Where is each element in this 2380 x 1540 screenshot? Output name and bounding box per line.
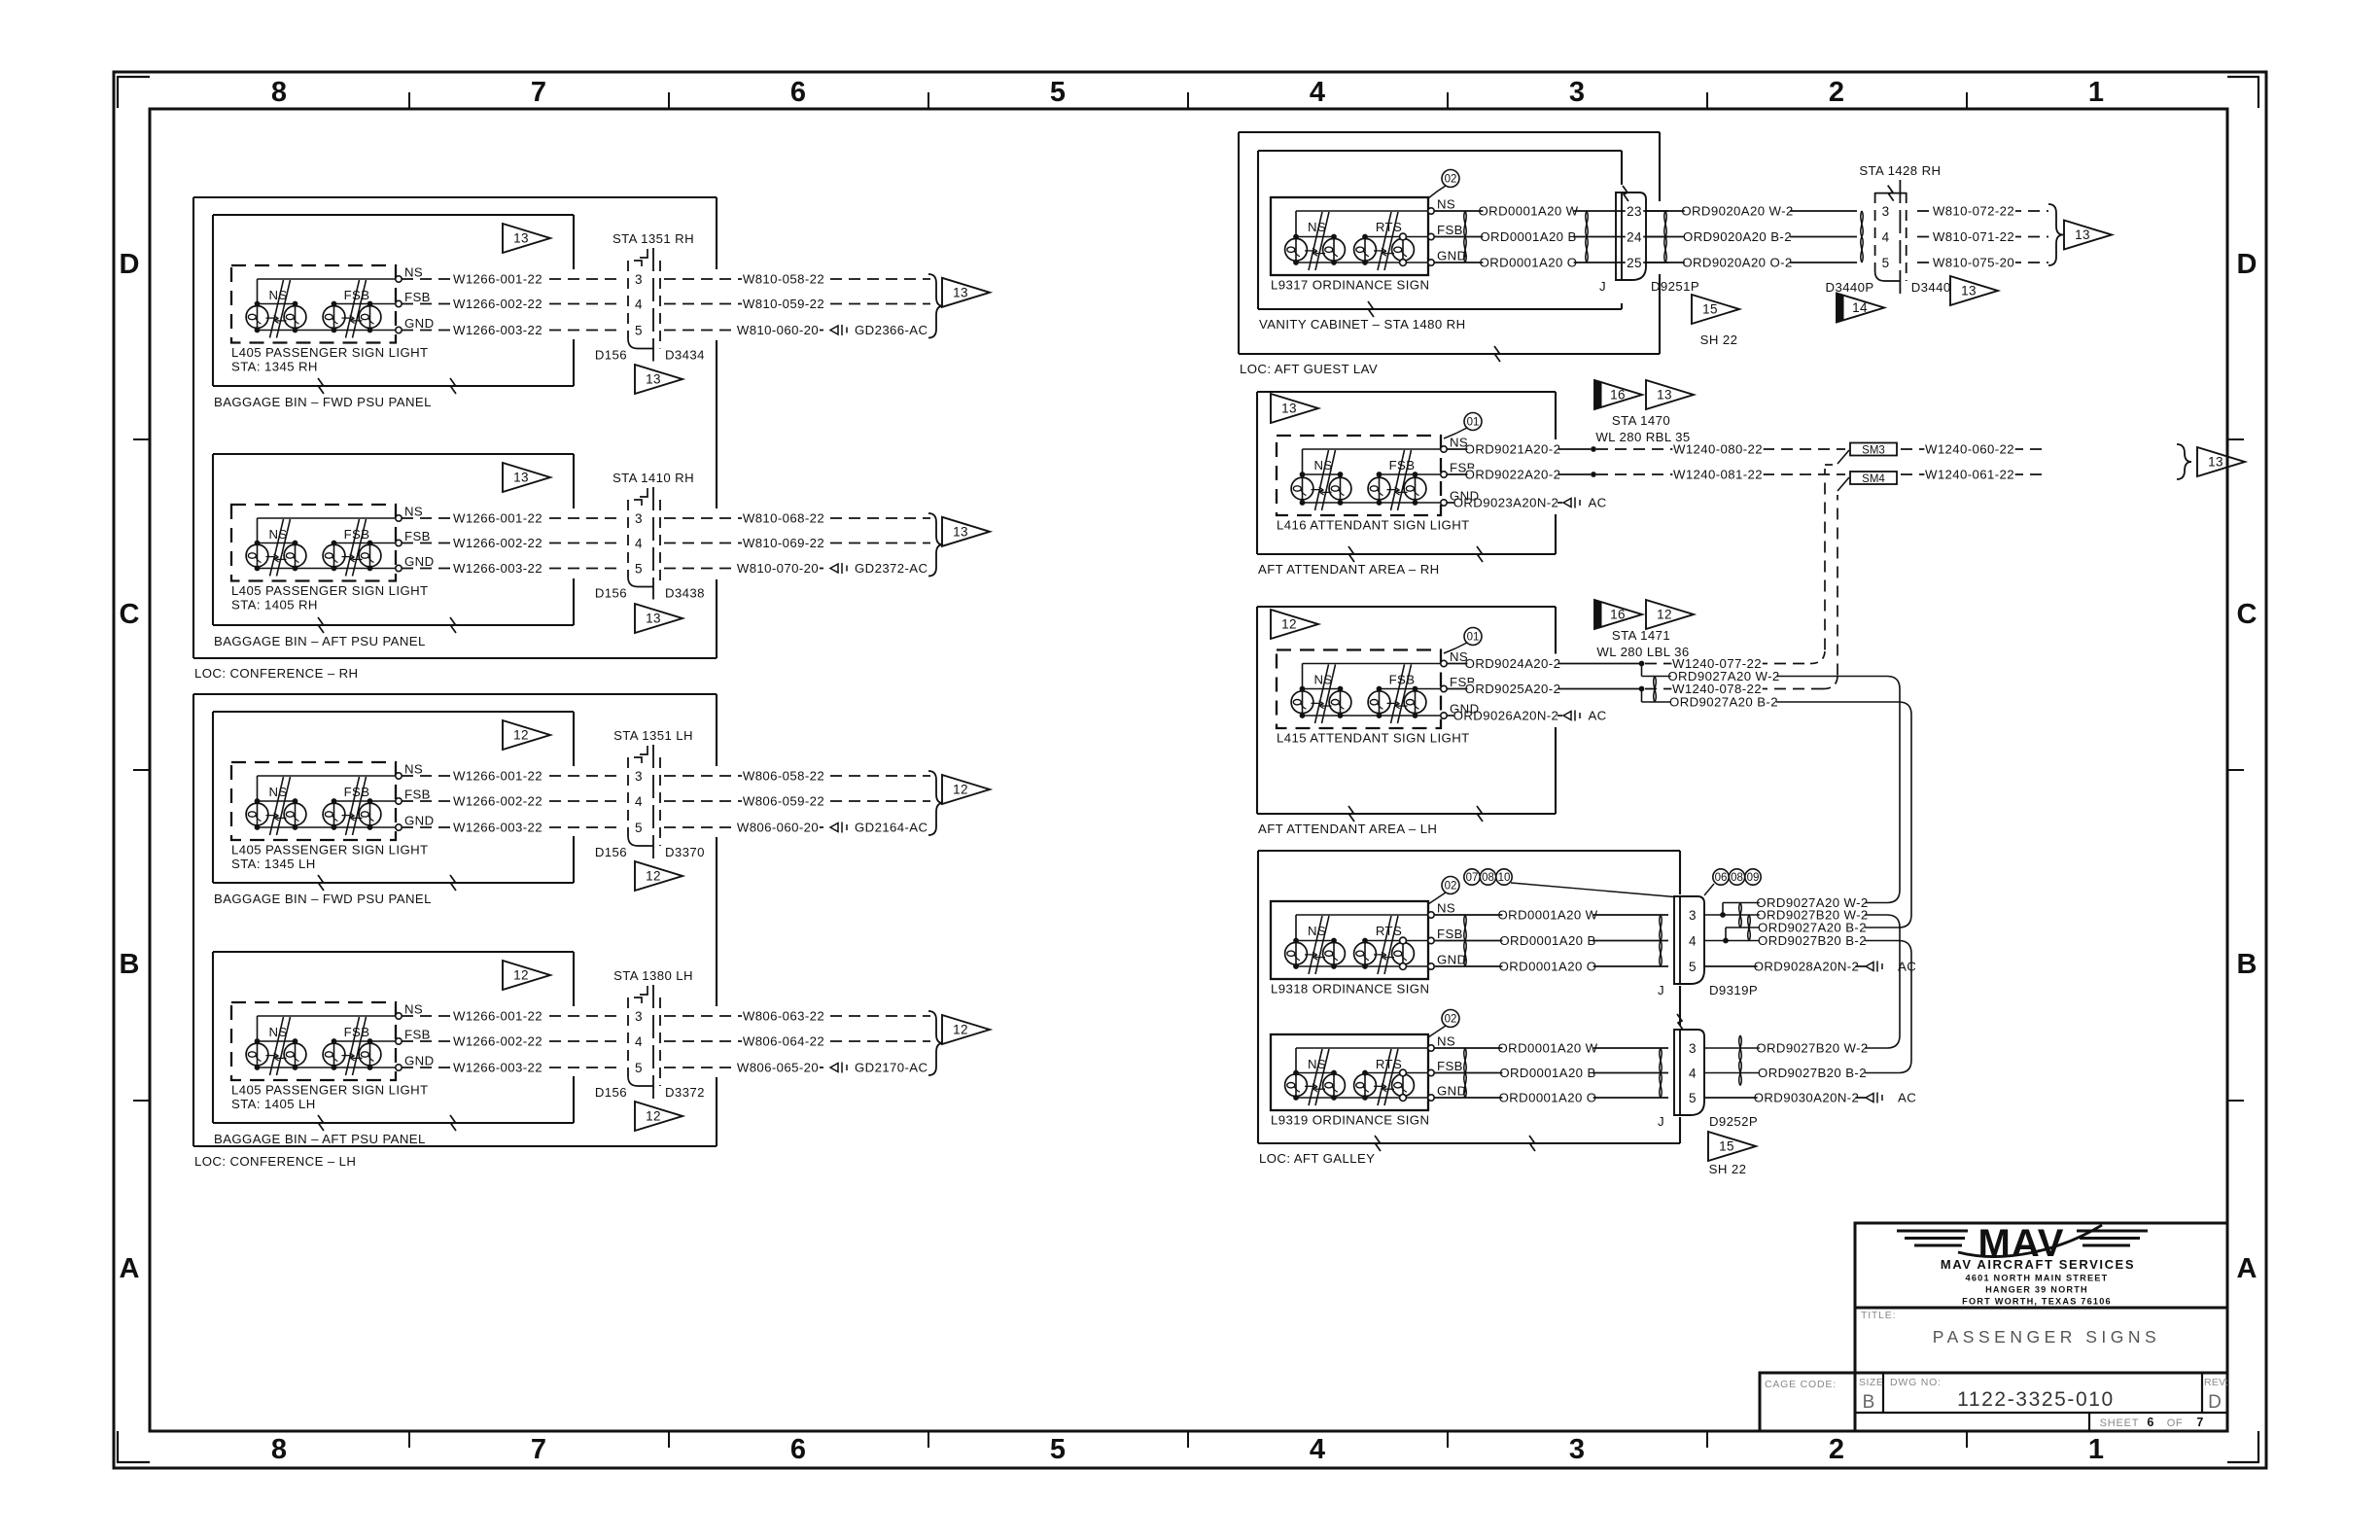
svg-text:FSB: FSB <box>404 787 431 802</box>
svg-text:D3440: D3440 <box>1911 280 1951 295</box>
connector J/D9319P pin 4 <box>1688 935 1698 949</box>
svg-text:14: 14 <box>1852 300 1868 315</box>
corner trim mark top-right <box>2227 77 2258 108</box>
wire W1240-061-22 <box>1901 473 2048 475</box>
svg-text:5: 5 <box>635 561 643 576</box>
L9319 pair-1 top rail <box>1296 1072 1334 1074</box>
L405 A pair-2 break slashes <box>346 280 360 338</box>
L405 D terminal GND <box>396 1065 402 1070</box>
svg-text:ORD9027B20 B-2: ORD9027B20 B-2 <box>1758 933 1867 948</box>
svg-text:ORD0001A20 O: ORD0001A20 O <box>1480 256 1578 270</box>
zone letters right <box>2237 249 2257 1284</box>
svg-text:FSB: FSB <box>1437 223 1463 237</box>
L9318 pair-1 top rail <box>1296 940 1334 942</box>
L9317 terminal NS <box>1428 208 1434 214</box>
L9317 lamp 2 <box>1333 237 1335 263</box>
svg-text:SH 22: SH 22 <box>1700 332 1738 347</box>
L405 B lamp 1 <box>257 543 259 569</box>
L405 D lamp 2 <box>295 1041 297 1067</box>
svg-text:13: 13 <box>953 524 968 539</box>
svg-text:W1266-001-22: W1266-001-22 <box>453 1009 542 1024</box>
svg-text:W810-072-22: W810-072-22 <box>1933 204 2014 219</box>
svg-text:BAGGAGE BIN – FWD PSU PANEL: BAGGAGE BIN – FWD PSU PANEL <box>214 395 432 409</box>
svg-text:NS: NS <box>1437 1034 1455 1049</box>
svg-text:STA 1410 RH: STA 1410 RH <box>612 471 694 485</box>
svg-text:ORD0001A20 B: ORD0001A20 B <box>1499 1066 1595 1080</box>
sheet flag 13 (wire bundle L405 A) <box>942 278 990 307</box>
LOC AFT GUEST LAV box bottom-edge breaks <box>1494 346 1500 362</box>
connector pin 5 <box>634 1062 645 1075</box>
svg-text:GD2164-AC: GD2164-AC <box>855 821 928 835</box>
svg-text:23: 23 <box>1627 204 1642 219</box>
L9318 lamp 3 <box>1364 941 1366 967</box>
svg-text:W810-058-22: W810-058-22 <box>743 272 824 287</box>
svg-text:NS: NS <box>404 1002 423 1017</box>
connector pin 4 <box>634 795 645 809</box>
svg-text:ORD0001A20 B: ORD0001A20 B <box>1499 933 1595 948</box>
sheet flag 13 (attendant RH) <box>1271 394 1318 423</box>
bundle brace (L405 C) <box>928 771 943 835</box>
callout 01 leader <box>1444 428 1467 438</box>
L9317 lamp 4 <box>1402 237 1404 263</box>
svg-text:NS: NS <box>1308 220 1326 234</box>
L9319 pair-2 break slashes <box>1378 1049 1391 1105</box>
svg-text:D156: D156 <box>595 845 627 859</box>
svg-text:12: 12 <box>646 869 661 884</box>
svg-text:L415 ATTENDANT SIGN LIGHT: L415 ATTENDANT SIGN LIGHT <box>1277 731 1470 746</box>
svg-text:FSB: FSB <box>1389 673 1416 687</box>
AFT ATTENDANT LH box outline <box>1257 607 1556 814</box>
L405 C pair-1 top rail <box>258 800 296 802</box>
svg-text:STA: 1405 RH: STA: 1405 RH <box>231 598 318 612</box>
svg-text:W810-071-22: W810-071-22 <box>1933 229 2014 244</box>
svg-text:5: 5 <box>1050 77 1066 108</box>
svg-text:3: 3 <box>1569 77 1585 108</box>
svg-text:A: A <box>2237 1253 2257 1284</box>
L405 D terminal FSB <box>396 1038 402 1044</box>
svg-text:4: 4 <box>1310 77 1325 108</box>
L9319 terminal FSB <box>1428 1069 1434 1075</box>
title block SIZE cell divider <box>1882 1373 1884 1413</box>
svg-text:W810-068-22: W810-068-22 <box>743 511 824 526</box>
wire W810-072-22 <box>1917 210 2048 212</box>
zone letters left <box>120 249 140 1284</box>
svg-text:13: 13 <box>646 372 661 387</box>
connector D3438 receptacle half <box>652 487 654 600</box>
L415 lamp 1 <box>1302 689 1304 717</box>
L405 C panel box bottom-edge breaks <box>318 875 456 891</box>
callout circle 02 (L9317) <box>1442 170 1459 188</box>
L405 D terminal NS <box>396 1013 402 1019</box>
wire W1266-001-22 (L405 C NS) <box>402 775 623 777</box>
L9317 terminal FSB <box>1428 233 1434 239</box>
L9317 NS feed wire <box>1296 210 1428 212</box>
L405 C NS feed wire <box>258 775 397 777</box>
splice SM3 <box>1850 443 1897 456</box>
L416 pair-2 top rail <box>1380 473 1442 475</box>
sheet flag 12 (panel L405 C) <box>503 720 550 750</box>
wire W810-070-20 (pin 5) with ground GD2372-AC <box>664 568 830 570</box>
svg-text:ORD0001A20 W: ORD0001A20 W <box>1497 908 1597 923</box>
L405 D pair-1 top rail <box>258 1040 296 1042</box>
svg-text:4: 4 <box>1689 933 1697 948</box>
L405 D lamp 1 <box>257 1041 259 1067</box>
L405 C lamp 3 <box>333 801 335 827</box>
svg-text:08: 08 <box>1731 872 1743 884</box>
connector pin 4 <box>634 1035 645 1049</box>
svg-text:STA 1351 RH: STA 1351 RH <box>612 231 694 246</box>
svg-text:ORD0001A20 B: ORD0001A20 B <box>1480 229 1576 244</box>
svg-text:FSB: FSB <box>1437 1059 1463 1073</box>
wire W1240-060-22 <box>1901 448 2048 450</box>
wire W1240-081-22 <box>1596 473 1845 475</box>
L9317 pair-1 break slashes <box>1309 212 1322 270</box>
svg-text:FSB: FSB <box>344 288 370 302</box>
svg-text:LOC: AFT GALLEY: LOC: AFT GALLEY <box>1259 1151 1375 1166</box>
twisted bundle (L9318 leads) <box>1464 915 1466 941</box>
connector J/D9319P shell <box>1674 896 1704 984</box>
svg-text:D9252P: D9252P <box>1709 1114 1758 1129</box>
svg-text:08: 08 <box>1482 872 1494 884</box>
svg-text:D156: D156 <box>595 1085 627 1100</box>
svg-text:W1266-001-22: W1266-001-22 <box>453 272 542 287</box>
wire W1266-002-22 (L405 B FSB) <box>402 542 623 544</box>
L9318 pair-2 top rail <box>1365 940 1428 942</box>
L415 pair-2 break slashes <box>1391 665 1405 724</box>
svg-text:16: 16 <box>1610 388 1626 402</box>
L416 terminal NS <box>1441 446 1447 452</box>
svg-text:LOC: AFT GUEST LAV: LOC: AFT GUEST LAV <box>1240 362 1378 376</box>
svg-text:W806-063-22: W806-063-22 <box>743 1009 824 1024</box>
svg-text:ORD9027A20 W-2: ORD9027A20 W-2 <box>1667 669 1779 683</box>
L405 C panel box outline <box>213 712 574 883</box>
sheet flag 12 (wire bundle L405 D) <box>942 1015 990 1044</box>
svg-text:3: 3 <box>1689 1041 1697 1056</box>
L405 D pair-1 break slashes <box>270 1017 284 1075</box>
svg-text:D3372: D3372 <box>665 1085 705 1100</box>
connector pin 3 <box>634 512 645 526</box>
wire ORD9027B20 B-2 (L9319 pin4) <box>1704 1072 1899 1074</box>
L9317 lamp 1 <box>1295 237 1297 263</box>
LOC AFT GALLEY box outline <box>1258 851 1680 1143</box>
svg-text:12: 12 <box>1281 617 1297 632</box>
svg-text:W806-060-20: W806-060-20 <box>737 821 819 835</box>
L405 A panel box outline <box>213 215 574 386</box>
title block REV cell divider <box>2201 1373 2203 1413</box>
LOC CONFERENCE LH box outline <box>193 694 717 1146</box>
svg-text:D3370: D3370 <box>665 845 705 859</box>
connector pin 4 <box>634 298 645 312</box>
wire W806-064-22 (pin 4) <box>664 1040 930 1042</box>
sheet flag 15 (D9251P) <box>1692 295 1739 324</box>
L416 lamp 3 <box>1379 474 1381 503</box>
svg-text:W1266-003-22: W1266-003-22 <box>453 821 542 835</box>
svg-text:LOC: CONFERENCE – LH: LOC: CONFERENCE – LH <box>194 1154 356 1169</box>
connector J/D9251P shell <box>1616 192 1646 280</box>
sheet flag 13 (below connector D3438) <box>635 604 682 633</box>
svg-text:W1266-002-22: W1266-002-22 <box>453 1034 542 1049</box>
svg-text:NS: NS <box>404 505 423 519</box>
twisted bundle symbol (after D9251P) <box>1664 211 1666 237</box>
L415 pair-1 top rail <box>1303 688 1341 690</box>
L405 A terminal FSB <box>396 300 402 306</box>
svg-text:4: 4 <box>635 1034 643 1049</box>
svg-text:GND: GND <box>1437 1084 1467 1099</box>
svg-text:LOC: CONFERENCE – RH: LOC: CONFERENCE – RH <box>194 666 358 681</box>
corner trim mark top-left <box>118 77 150 108</box>
L405 D panel box outline <box>213 952 574 1123</box>
L405 C enclosure box <box>231 762 396 840</box>
svg-text:AC: AC <box>1898 1091 1916 1105</box>
svg-text:GND: GND <box>1437 249 1467 263</box>
L415 NS feed wire <box>1303 663 1442 665</box>
splice SM4 <box>1850 472 1897 484</box>
tap wire ORD9027A20 B-2 (from L415 FSB) <box>1641 689 1643 703</box>
svg-text:NS: NS <box>1437 197 1455 212</box>
svg-text:4: 4 <box>635 536 643 550</box>
L405 A pair-1 break slashes <box>270 280 284 338</box>
svg-text:ORD9021A20-2: ORD9021A20-2 <box>1465 442 1561 457</box>
svg-text:GD2372-AC: GD2372-AC <box>855 561 928 576</box>
twisted bundle (before D9319P) <box>1660 915 1662 941</box>
connector J/D9252P panel edge line <box>1679 1030 1681 1115</box>
L9318 NS feed wire <box>1296 914 1428 916</box>
svg-text:4601 NORTH MAIN STREET: 4601 NORTH MAIN STREET <box>1966 1274 2109 1283</box>
connector D156 plug half <box>627 261 629 339</box>
wire ORD0001A20 B (L9318) <box>1434 940 1668 942</box>
svg-text:D3440P: D3440P <box>1826 280 1874 295</box>
svg-text:AC: AC <box>1588 709 1606 723</box>
svg-text:NS: NS <box>404 265 423 280</box>
L415 lamp 2 <box>1340 689 1342 717</box>
svg-text:1: 1 <box>2088 1434 2104 1465</box>
svg-text:02: 02 <box>1445 174 1457 186</box>
L9319 enclosure box <box>1271 1034 1428 1110</box>
sheet flag 12 (attendant LH) <box>1271 610 1318 639</box>
svg-text:MAV AIRCRAFT SERVICES: MAV AIRCRAFT SERVICES <box>1941 1257 2135 1272</box>
svg-text:STA 1380 LH: STA 1380 LH <box>613 968 693 983</box>
bundle brace (W1240 to sheet 13) <box>2177 444 2191 479</box>
L415 lamp 4 <box>1415 689 1417 717</box>
svg-text:BAGGAGE BIN – AFT PSU PANEL: BAGGAGE BIN – AFT PSU PANEL <box>214 634 426 648</box>
svg-text:D156: D156 <box>595 586 627 601</box>
svg-text:FSB: FSB <box>1437 927 1463 941</box>
L405 B lamp 3 <box>333 543 335 569</box>
L9319 terminal GND <box>1428 1095 1434 1101</box>
svg-text:1: 1 <box>2088 77 2104 108</box>
svg-text:13: 13 <box>953 285 968 299</box>
wire W810-059-22 (pin 4) <box>664 303 930 305</box>
svg-text:NS: NS <box>268 785 287 799</box>
svg-text:09: 09 <box>1747 872 1760 884</box>
L405 A ground bottom rail <box>258 330 397 332</box>
wire ORD0001A20 O (L9317 GND) <box>1434 262 1668 263</box>
wire W806-059-22 (pin 4) <box>664 800 930 802</box>
svg-text:W810-059-22: W810-059-22 <box>743 297 824 311</box>
svg-text:ORD9024A20-2: ORD9024A20-2 <box>1465 656 1561 671</box>
wire W1266-002-22 (L405 A FSB) <box>402 303 623 305</box>
wire ORD0001A20 W (L9318) <box>1434 914 1668 916</box>
splice node D9319P pin3 <box>1704 914 1723 916</box>
svg-text:A: A <box>120 1253 140 1284</box>
svg-text:AFT ATTENDANT AREA – RH: AFT ATTENDANT AREA – RH <box>1258 562 1440 577</box>
svg-text:NS: NS <box>404 762 423 777</box>
connector D3370 receptacle half <box>652 745 654 858</box>
svg-text:GND: GND <box>404 554 435 569</box>
L9318 lamp 2 <box>1333 941 1335 967</box>
svg-text:ORD9026A20N-2: ORD9026A20N-2 <box>1453 709 1559 723</box>
twisted bundle symbol (before D3440P) <box>1861 211 1863 237</box>
bundle brace (L405 B) <box>928 513 943 577</box>
connector J/D9251P pin 23 <box>1626 205 1643 219</box>
L405 A lamp 3 <box>333 304 335 331</box>
svg-text:W806-059-22: W806-059-22 <box>743 794 824 809</box>
svg-text:W1266-002-22: W1266-002-22 <box>453 794 542 809</box>
L9318 terminal GND <box>1428 963 1434 969</box>
svg-text:02: 02 <box>1445 881 1457 892</box>
svg-text:STA 1471: STA 1471 <box>1612 628 1670 643</box>
svg-text:PASSENGER SIGNS: PASSENGER SIGNS <box>1933 1327 2160 1347</box>
svg-text:3: 3 <box>635 1009 643 1024</box>
twisted bundle (L9319 leads) <box>1464 1048 1466 1073</box>
AFT ATTENDANT RH box outline <box>1257 392 1556 554</box>
L405 A NS feed wire <box>258 278 397 280</box>
svg-text:L9319 ORDINANCE SIGN: L9319 ORDINANCE SIGN <box>1271 1113 1429 1128</box>
svg-text:W1240-060-22: W1240-060-22 <box>1925 442 2014 457</box>
svg-text:L405 PASSENGER SIGN LIGHT: L405 PASSENGER SIGN LIGHT <box>231 843 429 857</box>
connector pin 3 <box>634 770 645 784</box>
svg-text:AC: AC <box>1898 960 1916 974</box>
L405 C pair-2 top rail <box>334 800 397 802</box>
wire W1266-003-22 (L405 A GND) <box>402 330 623 332</box>
svg-text:GND: GND <box>404 1054 435 1068</box>
svg-text:L405 PASSENGER SIGN LIGHT: L405 PASSENGER SIGN LIGHT <box>231 345 429 360</box>
L405 A pair-2 top rail <box>334 303 397 305</box>
connector J/D9251P panel edge line <box>1621 192 1623 280</box>
splice node D9319P pin4 <box>1704 940 1726 942</box>
sheet flag 12 (below connector D3372) <box>635 1102 682 1131</box>
connector D3440P plug half <box>1874 192 1876 271</box>
svg-text:7: 7 <box>531 77 546 108</box>
L416 lamp 1 <box>1302 474 1304 503</box>
L9319 pair-2 top rail <box>1365 1072 1428 1074</box>
connector J/D9251P pin 25 <box>1626 257 1643 270</box>
wire W1266-002-22 (L405 D FSB) <box>402 1040 623 1042</box>
svg-text:3: 3 <box>635 272 643 287</box>
connector D3372 receptacle half <box>652 985 654 1099</box>
svg-text:W810-069-22: W810-069-22 <box>743 536 824 550</box>
svg-text:C: C <box>2237 599 2257 630</box>
svg-text:W1266-002-22: W1266-002-22 <box>453 536 542 550</box>
svg-text:HANGER 39 NORTH: HANGER 39 NORTH <box>1985 1285 2088 1295</box>
wire W806-065-20 (pin 5) with ground GD2170-AC <box>664 1067 830 1068</box>
twisted pair (L9319 pin3) <box>1739 1035 1742 1061</box>
svg-text:ORD9030A20N-2: ORD9030A20N-2 <box>1754 1091 1860 1105</box>
twisted pair (B20 pair at galley) <box>1748 915 1751 941</box>
L405 C lamp 2 <box>295 801 297 827</box>
svg-text:W1266-001-22: W1266-001-22 <box>453 769 542 784</box>
splice node (L415 NS row) <box>1639 661 1645 667</box>
L415 terminal GND <box>1441 713 1447 718</box>
svg-text:STA: 1345 LH: STA: 1345 LH <box>231 857 316 871</box>
svg-text:OF: OF <box>2167 1417 2183 1429</box>
cage code cell <box>1760 1373 1855 1431</box>
svg-text:L9317 ORDINANCE SIGN: L9317 ORDINANCE SIGN <box>1271 278 1429 293</box>
svg-text:J: J <box>1658 1114 1664 1129</box>
svg-text:ORD9020A20 O-2: ORD9020A20 O-2 <box>1682 256 1792 270</box>
svg-text:13: 13 <box>1281 402 1297 416</box>
L405 C lamp 4 <box>369 801 371 827</box>
connector J/D9319P pin 3 <box>1688 909 1698 923</box>
svg-text:10: 10 <box>1498 872 1511 884</box>
svg-text:13: 13 <box>1961 284 1977 298</box>
connector pin 3 <box>1880 205 1891 219</box>
callout 06 leader to D9319P <box>1704 884 1714 895</box>
connector pin 5 <box>1880 257 1891 270</box>
bundle brace (W810 to sheet 13) <box>2048 204 2063 265</box>
wire W1266-003-22 (L405 D GND) <box>402 1067 623 1068</box>
svg-text:D3438: D3438 <box>665 586 705 601</box>
L9317 pair-1 top rail <box>1296 236 1334 238</box>
svg-text:D: D <box>2208 1392 2222 1413</box>
sheet flag 12 (panel L405 D) <box>503 961 550 990</box>
L405 B NS feed wire <box>258 517 397 519</box>
L405 B terminal FSB <box>396 540 402 545</box>
wire ORD9021A20-2 <box>1447 448 1591 450</box>
svg-text:13: 13 <box>1657 388 1672 402</box>
splice node (NS row) <box>1591 446 1596 452</box>
svg-text:FSB: FSB <box>344 1025 370 1039</box>
svg-text:ORD9020A20 B-2: ORD9020A20 B-2 <box>1683 229 1792 244</box>
svg-text:W1240-061-22: W1240-061-22 <box>1925 468 2014 482</box>
wire W1266-003-22 (L405 C GND) <box>402 826 623 828</box>
wire ORD9027B20 B-2 (pin4 out) <box>1726 940 1899 942</box>
svg-text:ORD0001A20 W: ORD0001A20 W <box>1497 1041 1597 1056</box>
L9318 terminal FSB <box>1428 937 1434 943</box>
connector pin 3 <box>634 273 645 287</box>
svg-text:ORD9027A20 B-2: ORD9027A20 B-2 <box>1669 695 1778 710</box>
wire ORD9027B20 W-2 (L9319 pin3) <box>1704 1047 1887 1049</box>
twisted pair symbol (ORD9027A20 pair) <box>1654 677 1657 703</box>
svg-text:NS: NS <box>1313 458 1332 472</box>
wire W810-060-20 (pin 5) with ground GD2366-AC <box>664 330 830 332</box>
wire ORD9030A20N-2 with AC ground <box>1704 1097 1866 1099</box>
svg-text:FSB: FSB <box>344 785 370 799</box>
svg-text:1122-3325-010: 1122-3325-010 <box>1957 1388 2115 1411</box>
svg-text:D9251P: D9251P <box>1651 279 1699 294</box>
L405 A lamp 2 <box>295 304 297 331</box>
svg-text:AFT ATTENDANT AREA – LH: AFT ATTENDANT AREA – LH <box>1258 822 1437 836</box>
wire W1240-080-22 <box>1596 448 1845 450</box>
wire ORD0001A20 B (L9319) <box>1434 1072 1668 1074</box>
svg-text:C: C <box>120 599 140 630</box>
title block outline <box>1855 1223 2227 1431</box>
L416 lamp 4 <box>1415 474 1417 503</box>
svg-text:5: 5 <box>1882 256 1890 270</box>
svg-text:ORD9023A20N-2: ORD9023A20N-2 <box>1453 496 1559 510</box>
VANITY CABINET box outline <box>1258 151 1622 309</box>
VANITY CABINET box bottom-edge breaks <box>1368 301 1374 317</box>
svg-text:B: B <box>120 949 140 980</box>
svg-text:FSB: FSB <box>1389 458 1416 472</box>
svg-text:01: 01 <box>1467 632 1480 644</box>
L405 B panel box bottom-edge breaks <box>318 617 456 633</box>
svg-text:CAGE CODE:: CAGE CODE: <box>1765 1379 1837 1390</box>
sheet flag 13 (panel L405 B) <box>503 463 550 492</box>
svg-text:FSB: FSB <box>404 290 431 304</box>
L405 D pair-2 top rail <box>334 1040 397 1042</box>
svg-text:B: B <box>1863 1392 1875 1413</box>
